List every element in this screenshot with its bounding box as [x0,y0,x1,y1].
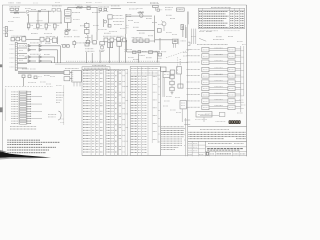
wire table D right border [159,67,161,156]
capacitor C3 [11,38,15,41]
wiring table A rows [83,70,103,152]
wire chip select row 8 [235,94,244,96]
capacitor C33 near title [200,112,225,116]
wire C2 drop [37,12,39,23]
notes list line 1 [7,140,40,141]
net label 29 [148,35,153,37]
gate U7A [30,43,61,47]
net label cluster mid band [85,49,104,52]
net label left row 6 [187,81,201,83]
net label 2 [41,9,46,11]
reproduction notice text [200,128,229,130]
ROM U14 [202,67,209,72]
net label 6 [44,33,52,35]
wire data bus row 4 [209,68,228,71]
wire chip select row 7 [235,88,244,90]
wire to connector right [155,39,172,41]
signal table title [211,6,231,8]
IC U33 [85,42,89,46]
transistor Q2 [15,37,26,41]
registration mark left edge upper [0,65,2,67]
wire supply vertical [125,34,127,44]
wiring table C box [118,69,128,155]
connector J4 pin 2 [11,94,31,96]
wire data bus row 6 [209,81,228,84]
sync circuit text [132,36,143,38]
pin tick column [180,60,181,65]
wire right edge drops [183,26,186,38]
wire second divider lower [184,118,186,156]
wire drop to bus from row [137,54,139,63]
wire data bus row 9 [209,99,228,102]
connector J4 pin 6 [11,103,42,105]
capacitor C14 [114,38,121,42]
potentiometer VR1 [65,10,71,16]
connector J4 pin 11 [11,115,31,117]
connector J4 pin 9 [11,111,42,113]
RAM U26 [228,80,235,85]
wiring table A box [82,69,104,155]
capacitor C32 [178,84,183,88]
gate U6B [28,48,36,51]
connector J5 [177,67,182,74]
net label left row 5 [187,75,201,77]
gate U9A [30,54,55,58]
gate U9B [39,60,52,63]
connector J4 pin 10 [11,113,31,115]
capacitor C25 [138,51,147,53]
capacitor C28 [170,70,175,74]
net label 43 [50,76,55,78]
ground chain [171,93,174,95]
net label 51 [183,55,187,57]
junction dot rail [60,22,63,25]
connector J4 pin 12 [11,118,42,120]
registration mark left edge lower [0,108,3,112]
table footnote dashes [200,30,240,32]
net label 60 [191,36,196,38]
connector J6 with pins [163,72,170,78]
gate U8A [25,56,40,59]
net label 11 [80,25,86,27]
wire drop band b [91,53,94,63]
net label 21 [137,8,143,10]
capacitor C1 [10,12,22,14]
harness table D box [130,67,160,156]
page corner shadow wedge [0,150,51,160]
net label 13 [98,29,107,31]
signal table row 8 [199,27,244,29]
net label left row 1 [187,49,201,51]
net label 24 [166,14,172,16]
RAM U29 [228,99,235,104]
ROM U12 [202,54,209,59]
number row grid [209,151,239,156]
net label 28 [139,32,145,34]
resistor network RN1 [61,45,69,48]
wire faint cross rail [33,28,44,30]
net label 26 [158,24,163,26]
resistor R3 with ground [27,24,33,30]
wire data bus row 7 [209,87,228,90]
net label 52 [166,96,172,98]
wire right vertical x125 [124,44,126,63]
divider crossing stubs [184,120,190,145]
net label 65 [239,99,244,101]
notes list line 5 [7,149,49,150]
notes list line 2 [7,142,60,143]
capacitor C24 [133,51,136,54]
net label left row 9 [187,100,201,102]
resistor R2 [16,8,19,10]
net label 22 [146,18,152,20]
connector J3 vertical bar [15,43,17,71]
net label 27 [133,26,139,28]
wire chip select row 1 [235,49,244,51]
wire pair vertical [163,74,165,97]
ROM U17 [202,86,209,91]
notes paragraph heading [161,126,184,128]
wire reset node [137,29,155,31]
gate U7B [39,48,58,51]
signal table row 5 [199,20,244,22]
wire U2 down to rail [60,11,62,23]
ROM U16 [202,80,209,85]
net label 66 [241,104,246,106]
RAM U25 [228,74,235,79]
wire J7 to J8 [70,73,72,79]
wire above divider [188,12,190,25]
net label 54 [164,100,170,102]
RAM U24 [228,67,235,72]
capacitor C4 [16,37,20,41]
wire U31 drop [195,117,207,122]
wire main vertical divider [187,12,189,157]
wire drop band a [85,52,88,63]
wire right vertical [179,74,181,88]
connector J4 pin 5 [11,101,31,103]
signal table row 6 [199,22,244,24]
net label left row 2 [187,55,201,57]
capacitor C11 [90,41,96,44]
capacitor C31 chain bottom [170,85,174,93]
notes paragraph rule [161,128,185,130]
notes paragraph body [161,130,184,149]
sheet border frame bottom [82,155,247,157]
connector J4 pin 8 [11,108,31,110]
clock text block [126,14,132,16]
resistor R4 with ground [37,24,43,30]
net label 53 [175,97,180,99]
wire junction node B drop [96,7,99,32]
IC U10 [180,101,186,109]
relay K1 text [140,55,146,57]
net label 47 [128,57,134,59]
wire elbow right [160,38,167,52]
wiring table B rows [107,70,117,152]
legal paragraph lines [189,132,247,139]
net label 58 [199,31,204,33]
net label left row 4 [187,68,201,70]
IC U5 [172,39,177,48]
notes list line 6 [7,152,46,153]
net label 42 [44,75,50,77]
connector J4 pin 4 [11,98,31,100]
net label 20 [129,8,137,10]
leader line diagonal [199,38,206,41]
net label 17 [85,36,91,38]
harness table D rows [131,76,160,152]
crystal Y1 [150,4,159,11]
title block top rule [188,126,247,128]
sheet border frame right [246,5,248,156]
connector diagram label [65,68,79,70]
bus tick labels [66,60,160,62]
wire drop band e [118,46,120,62]
wire left vertical x126 [126,14,129,34]
document stamp number [229,121,240,124]
net label 59 [206,31,212,33]
wire triple rail [18,71,64,73]
capacitor C23 [34,76,42,79]
net label 55 [163,105,168,107]
capacitor C18 [133,39,137,43]
capacitor C9 [108,25,111,28]
wire oscillator output [22,11,26,13]
net label 61 [216,36,222,38]
capacitor C27 [161,67,166,71]
ROM U15 [202,74,209,79]
title block mid rule [188,140,247,142]
wire data bus row 5 [209,74,228,77]
net label 15 [64,36,72,38]
resistor R7 [46,38,50,42]
net label 9 [73,19,80,21]
ROM U18 [202,93,209,98]
leader dashed diagonal [166,49,191,58]
connector J4 pin 1 [11,91,31,93]
net label 39 [44,54,50,56]
wire drop band c [99,52,102,63]
wire Q2 output [26,39,40,41]
sheet size letter [206,152,208,155]
net label 48 [133,59,139,61]
net label 25 [170,17,175,19]
ROM U11 [202,47,209,52]
diode CR3 [73,40,76,48]
wiring table C rows [119,70,128,152]
net label 62 [228,36,233,38]
capacitor C5 [40,37,55,42]
signal table row 3 [199,15,244,17]
sheet annotation text above border left [9,2,22,4]
net label 38 [45,42,51,44]
IC U31 wide [196,112,212,118]
wire chip select row 2 [235,55,244,57]
inductor L1 [75,5,83,8]
divider small box [188,42,190,45]
net label left row 3 [187,61,201,63]
wire U10 drop [181,109,183,122]
net label 49 [146,57,152,59]
net label left row 10 [187,106,201,108]
junction dot wire B left [37,10,40,13]
wire chip select row 3 [235,62,244,64]
wire J3 row outputs [17,44,27,69]
wire data bus row 3 [209,61,228,64]
wire address bus vertical A [240,46,242,112]
net label 46 [46,83,51,85]
IC U4 [177,8,185,11]
resistor R1 [10,8,14,10]
wire feeds left of table [192,29,196,44]
net label 7 [31,32,38,34]
signal table row 2 [199,13,244,15]
net label 57 [176,112,181,114]
wire L feed vertical [127,40,160,52]
capacitor C13 [108,38,114,42]
capacitor C6 [86,5,92,9]
signal table column rules [203,8,240,28]
transistor Q5 [99,42,105,51]
wire data bus row 2 [209,54,228,57]
wiring table B box [106,69,118,155]
net label 16 [74,36,80,38]
net label 50 [183,52,187,54]
wire clock vertical drop [154,16,156,43]
capacitor C19 [139,39,143,43]
net label 36 [19,55,24,57]
value list text rows [113,16,124,25]
net label 30 [166,32,172,34]
capacitor C12 [104,38,108,42]
diode CR1 [44,38,57,42]
connector J1 left edge [3,27,13,37]
net label 1 [31,9,36,11]
connector J7 body A [64,71,70,75]
company name text [208,143,244,145]
shield dashed boundary [5,85,62,88]
potentiometer VR2 [65,17,71,23]
RAM U28 [228,93,235,98]
wire to video out [111,6,121,8]
notes list line 3 [7,144,42,145]
signal table row 4 [199,18,244,20]
wire clock bus [126,15,152,17]
net label 19 [104,32,111,34]
ROM U13 [202,60,209,65]
table AB header band [82,67,110,70]
wire divider upper segment [185,25,187,38]
net label 34 [19,45,24,47]
signal table outer box [198,8,244,28]
capacitor C2 on wire [39,10,41,12]
rectifier CR2 [104,15,112,23]
net label 14 [109,31,117,33]
capacitor C20 [145,39,149,43]
gate U8B [28,60,36,63]
clock labels text [165,7,173,10]
sheet border frame top [2,4,246,6]
RAM U27 [228,86,235,91]
reference text below table [213,39,224,41]
transistor Q3 [138,12,144,18]
signal table row 7 [199,24,244,26]
wire shield drop [23,78,25,87]
connector J4 pin 13 [11,120,31,122]
wire drop band d [108,48,111,63]
wire CR2 drops [104,19,109,27]
capacitor C10 [86,40,89,44]
label above corner [127,49,132,51]
junction dot wire B right [47,10,50,13]
connector J4 pin 14 [11,123,31,125]
gate U32 label [76,42,84,44]
approvals grid [188,141,206,156]
capacitor C34 pair [108,42,113,47]
oscillator U1 label text [10,6,21,8]
gate U6A [25,44,40,47]
net label 3 [37,20,43,22]
capacitor C30 chain mid [170,79,174,85]
connector J4 pin 3 [11,96,42,98]
net label 67 [237,112,243,114]
harness table D header text [131,69,158,73]
net label 35 [19,50,23,52]
capacitor C22 [28,75,31,78]
horizontal rail node VCO [27,22,62,24]
notes list line 4 [7,147,56,148]
dotted drop [177,57,179,66]
wire horizontal bus second [55,63,160,65]
wire address bus vertical B [243,46,245,96]
wire chip select row 5 [235,75,244,77]
signal table row 1 [199,11,244,13]
capacitor C15 [121,38,126,42]
title cell rule 1 [206,146,247,148]
RAM U30 [228,105,235,110]
drawing number text [210,153,245,155]
connector J4 column box [5,89,27,125]
net label 12 [93,25,99,27]
transistor Q4 [161,20,166,31]
memory array header text [197,44,228,46]
wire chip select row 10 [235,107,244,109]
wire table left faint [60,85,64,125]
wire chip select row 9 [235,100,244,102]
net label 45 [40,81,46,83]
net label 56 [170,109,176,111]
connector J4 pin 7 [11,106,31,108]
transistor Q1 [25,8,31,16]
capacitor C21 [22,75,25,78]
net label 32 [128,19,133,21]
ROM U20 [202,105,209,110]
resistor R5 with ground [45,24,51,30]
capacitor C17 [157,29,161,33]
wire drop to bus right [57,36,59,44]
wire Q1 drop [28,14,30,23]
connector J8 body [72,71,82,83]
resistor R6 with ground [54,24,60,30]
RAM U21 [228,47,235,52]
capacitor C8 [85,22,90,35]
supply components text [103,35,123,37]
wire chip select row 6 [235,81,244,83]
handwritten mark [216,121,226,123]
buffer U2 cluster [52,6,62,13]
sheet annotation text above border mid [33,1,158,4]
